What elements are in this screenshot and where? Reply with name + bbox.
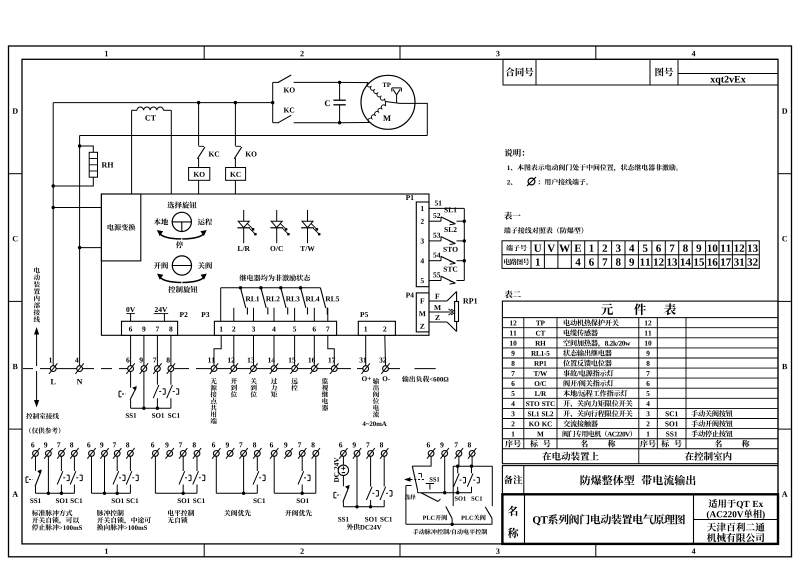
group3 open button SO1 bbox=[182, 456, 184, 471]
wire terminal 8 down bbox=[471, 456, 473, 466]
group5 common rail bbox=[274, 492, 316, 494]
connector P5 bbox=[358, 321, 395, 335]
terminal 13 bbox=[251, 366, 257, 372]
group5 open priority terminals bbox=[271, 451, 277, 457]
group5 wire 8 bbox=[315, 456, 317, 493]
label 24V bbox=[155, 307, 168, 312]
group2 pulse control terminals bbox=[89, 451, 95, 457]
group3 level control terminals bbox=[153, 451, 159, 457]
component table rows bbox=[510, 321, 516, 326]
boundary dash line (device/control room) bbox=[23, 368, 33, 370]
PLC manual open button SO1 bbox=[457, 466, 459, 473]
border zone labels bbox=[105, 51, 108, 56]
wires P2 to terminals 6 9 7 8 bbox=[130, 335, 132, 365]
contactor coil KC bbox=[226, 168, 246, 181]
LED O/C (open/close) bbox=[276, 210, 278, 221]
group4 close priority terminals bbox=[213, 451, 219, 457]
label 过力矩 bbox=[271, 378, 277, 397]
terminal symbol in note bbox=[528, 178, 535, 185]
relay contact RL2 bbox=[259, 286, 262, 289]
close button SC1 (mid) bbox=[170, 372, 172, 385]
label 输出负载<600Ω bbox=[402, 376, 448, 382]
selector blade 选择 bbox=[421, 493, 438, 502]
drawing number xqt2vEx bbox=[710, 76, 746, 85]
terminal 1 (L) bbox=[50, 366, 56, 372]
PLC bottom rail bbox=[406, 523, 492, 525]
terminal 12 bbox=[231, 366, 237, 372]
group5 labels bbox=[297, 498, 309, 503]
group6 caption 外供DC24V bbox=[347, 524, 382, 530]
terminal 17 bbox=[331, 366, 337, 372]
group2 open button SO1 bbox=[116, 456, 118, 471]
torque switch STC (close) bbox=[429, 280, 441, 282]
common rail (mid buttons) bbox=[131, 407, 171, 409]
PLC close contact bbox=[485, 507, 492, 518]
component table location row bbox=[502, 448, 778, 450]
PLC open contact bbox=[446, 507, 452, 519]
group5 caption 开阀优先 bbox=[285, 510, 312, 516]
group3 close button SC1 bbox=[196, 456, 198, 471]
group1 caption 标准脉冲方式 bbox=[32, 510, 72, 516]
group2 wire 9 bbox=[104, 456, 106, 493]
node bus-L junctions bbox=[197, 101, 200, 104]
wire motor to N bus bbox=[385, 102, 427, 136]
label 输出阀位电流 4-20mA bbox=[373, 378, 379, 418]
limit switch SL1 (open travel) bbox=[429, 220, 441, 222]
terminal 9 (mid row) bbox=[141, 366, 147, 372]
label 远控 bbox=[291, 378, 297, 391]
group3 wire 6 bbox=[154, 456, 156, 493]
wire terminal 9 down bbox=[444, 456, 446, 492]
component table header bbox=[502, 317, 778, 319]
arrow up 电动装置内部接线 bbox=[34, 267, 40, 322]
labels SO1 SC1 (PLC) bbox=[455, 496, 466, 500]
drawing-no box 图号 bbox=[650, 59, 778, 85]
contact KO (NC, in KC coil branch) bbox=[234, 103, 236, 146]
thermal protector TP bbox=[392, 87, 402, 89]
component table 元件表 outline bbox=[502, 301, 778, 464]
labels SS1 SO1 SC1 (mid) bbox=[126, 413, 136, 418]
terminal 8 (mid row) bbox=[168, 366, 174, 372]
terminal 7 (mid row) bbox=[155, 366, 161, 372]
table2 title 表二 bbox=[504, 290, 521, 298]
wire L rail bbox=[52, 103, 54, 366]
table1 title 表一 bbox=[504, 212, 521, 220]
wires P5 to terminals 31 32 bbox=[365, 335, 367, 365]
group4 labels bbox=[253, 498, 265, 503]
group2 close button SC1 bbox=[129, 456, 131, 471]
control knob 控制旋钮 bbox=[172, 256, 191, 275]
terminal 14 bbox=[271, 366, 277, 372]
wires P3 2-6 to terminals 12-16 bbox=[233, 335, 235, 365]
terminal 32 (O-) bbox=[383, 366, 389, 372]
PLC loop top bbox=[453, 465, 492, 467]
group6 close button SC1 bbox=[383, 456, 385, 486]
relay contact RL5 bbox=[320, 288, 325, 308]
power converter box 电源变换 bbox=[101, 194, 140, 261]
group2 labels bbox=[112, 498, 124, 503]
group4 close button SC1 bbox=[256, 456, 258, 471]
group3 common rail bbox=[155, 492, 197, 494]
border row ticks left/right bbox=[9, 173, 23, 175]
group6 labels bbox=[338, 517, 348, 522]
limit switch right rail bbox=[463, 208, 465, 280]
applicability cell bbox=[694, 519, 779, 521]
group1 labels bbox=[30, 498, 40, 503]
group2 common rail bbox=[92, 492, 131, 494]
connector P1 bbox=[416, 202, 429, 287]
group1 stop button SS1 bbox=[35, 456, 37, 471]
label 无源接点共用端 (passive contact common) bbox=[210, 378, 216, 424]
relay contact RL1 bbox=[239, 286, 242, 289]
contract-no box 合同号 bbox=[503, 59, 650, 85]
group4 common rail bbox=[216, 492, 257, 494]
PLC manual close button SC1 bbox=[471, 466, 473, 473]
relay contact RL3 bbox=[279, 286, 282, 289]
group6 wire 9 bbox=[356, 456, 358, 507]
group1 close button SC1 bbox=[73, 456, 75, 471]
relay contact posts (to P3 pins 2-7) bbox=[233, 308, 235, 322]
wire P3-7 to terminal 17 (jog) bbox=[328, 335, 335, 365]
terminal 11 bbox=[211, 366, 217, 372]
remark box 备注 bbox=[502, 466, 778, 495]
label 0V bbox=[126, 307, 135, 312]
wire N rail bbox=[79, 136, 81, 366]
relay contact RL4 bbox=[299, 286, 302, 289]
notes 说明 bbox=[505, 149, 525, 157]
group4 wire 7 bbox=[243, 456, 245, 493]
contactor coil KO bbox=[189, 168, 210, 181]
title block 名称 bbox=[502, 494, 778, 544]
terminal 15 bbox=[292, 366, 298, 372]
group3 labels bbox=[178, 498, 190, 503]
group1 wire 9 bbox=[47, 456, 49, 493]
current sensor CT bbox=[131, 110, 133, 194]
torque switch STO (open) bbox=[429, 260, 441, 262]
terminal 6 (mid row) bbox=[128, 366, 134, 372]
PLC caption 手动脉冲控制/自动电平控制 bbox=[413, 529, 487, 535]
wire bus N (motor return) bbox=[80, 135, 428, 137]
terminal 31 (O+) bbox=[363, 366, 369, 372]
terminal 4 (N) bbox=[77, 366, 83, 372]
group1 common rail bbox=[36, 492, 75, 494]
contact KC (motor close) bbox=[273, 122, 279, 124]
group3 caption 电平控制 bbox=[168, 510, 194, 516]
LED L/R (local/remote) bbox=[243, 210, 245, 221]
limit switch SL2 (close travel) bbox=[429, 240, 441, 242]
wire L to power converter bbox=[52, 206, 55, 209]
connector P4 bbox=[416, 293, 429, 332]
motor M (single phase AC220V) bbox=[361, 75, 415, 129]
stop button SS1 (mid) bbox=[130, 372, 132, 388]
wire terminal 9 to rail (mid) bbox=[143, 372, 145, 409]
group6 external DC24V terminals bbox=[341, 451, 347, 457]
label 开到位 bbox=[231, 378, 237, 397]
group6 common rail bbox=[343, 506, 384, 508]
control board outline bbox=[101, 194, 429, 335]
selector actuator arrow bbox=[404, 477, 411, 482]
label 关到位 bbox=[250, 378, 256, 397]
wire bus L bbox=[53, 102, 273, 104]
contact KC (NC, in KO coil branch) bbox=[198, 103, 200, 146]
potentiometer RP1 (position feedback) bbox=[429, 300, 447, 302]
group2 caption 脉冲控制 bbox=[97, 510, 124, 516]
contact KO (motor open) bbox=[272, 82, 274, 122]
open button SO1 (mid) bbox=[156, 372, 158, 385]
LED T/W (trouble/power) bbox=[307, 210, 309, 221]
group1 open button SO1 bbox=[60, 456, 62, 471]
label DC 24V vertical bbox=[334, 458, 339, 483]
selector knob 选择旋钮 bbox=[167, 202, 196, 209]
border column ticks top/bottom bbox=[203, 46, 205, 59]
group5 open button SO1 bbox=[301, 456, 303, 471]
connector P2 bbox=[122, 321, 178, 335]
wire terminal 7 down bbox=[458, 456, 460, 466]
wire P3-1 to terminal 11 (jog) bbox=[214, 335, 221, 365]
terminal 16 bbox=[311, 366, 317, 372]
capacitor C bbox=[338, 81, 341, 84]
group1 standard pulse mode terminals bbox=[33, 451, 39, 457]
resistor RH (space heater) bbox=[78, 144, 81, 147]
label 监视继电器 bbox=[322, 378, 328, 411]
group5 wire 6 bbox=[273, 456, 275, 493]
group6 stop button SS1 bbox=[342, 476, 344, 487]
wire N to power converter bbox=[78, 246, 81, 249]
relay contact bus bbox=[221, 287, 321, 289]
note: relays non-energized 继电器均为非激励状态 bbox=[240, 274, 311, 281]
manual common line bbox=[418, 492, 472, 494]
arrow down 控制室接线 bbox=[36, 371, 38, 405]
group2 wire 6 bbox=[91, 456, 93, 493]
component table footer header row bbox=[502, 438, 778, 440]
wire 51 (P1-1 to limit switch rail) bbox=[429, 207, 464, 209]
connector P3 bbox=[214, 321, 336, 335]
PLC group stop button SS1 chain bbox=[412, 456, 431, 466]
group6 open button SO1 bbox=[370, 456, 372, 486]
table1 terminal cross-reference bbox=[502, 241, 759, 269]
title 名称 main text bbox=[533, 514, 685, 525]
DC24V source bbox=[342, 456, 344, 465]
PLC left rail bbox=[406, 485, 412, 487]
group4 wire 6 bbox=[215, 456, 217, 493]
group4 caption 关阀优先 bbox=[224, 510, 251, 516]
PLC group terminals bbox=[428, 451, 434, 457]
